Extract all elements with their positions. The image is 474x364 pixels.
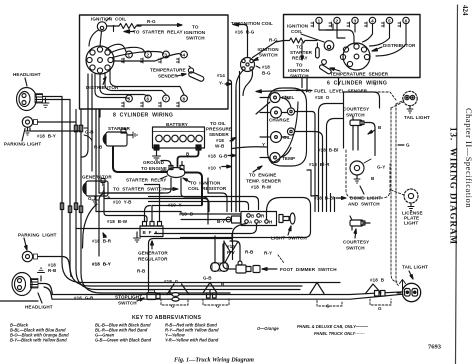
svg-text:PANEL & DELUXE CAB, ONLY———: PANEL & DELUXE CAB, ONLY——— [297, 324, 369, 329]
svg-text:TO IGNITION: TO IGNITION [190, 181, 221, 186]
svg-text:G: G [378, 306, 382, 311]
svg-text:4: 4 [371, 18, 374, 23]
svg-text:6: 6 [147, 97, 150, 102]
svg-text:BATTERY: BATTERY [166, 122, 188, 127]
wire relay to switch runs [83, 109, 210, 256]
battery [153, 122, 205, 150]
svg-text:TO ENGINE: TO ENGINE [141, 166, 167, 171]
distributor-plug wires (6 cyl) [319, 24, 406, 56]
svg-text:TO STARTER RELAY: TO STARTER RELAY [133, 30, 183, 35]
svg-text:G: G [88, 196, 92, 201]
svg-text:HEADLIGHT: HEADLIGHT [13, 72, 41, 77]
svg-text:#18 G-B: #18 G-B [208, 154, 228, 159]
svg-text:A: A [249, 220, 253, 225]
svg-text:STARTER: STARTER [290, 50, 313, 55]
svg-text:O—Orange: O—Orange [257, 326, 279, 331]
svg-text:#18 O: #18 O [315, 95, 330, 100]
wire left vertical bundle [62, 97, 101, 294]
to starter switch [113, 187, 178, 192]
left connectors G-B / R-B [74, 125, 103, 149]
svg-text:CHARGE: CHARGE [269, 118, 290, 123]
svg-text:R-Y: R-Y [264, 251, 272, 256]
svg-text:R-B: R-B [245, 250, 254, 255]
svg-text:#18 B-Bl: #18 B-Bl [314, 196, 335, 201]
svg-text:13. WIRING DIAGRAM: 13. WIRING DIAGRAM [449, 127, 459, 245]
svg-text:TO STARTER SWITCH: TO STARTER SWITCH [113, 187, 166, 192]
wire headlight1 feeds [30, 97, 81, 132]
to ignition coil resistor [183, 178, 227, 191]
svg-text:Y-: Y- [219, 81, 224, 86]
svg-text:TO FUEL LEVEL SENDER: TO FUEL LEVEL SENDER [305, 89, 368, 94]
svg-text:COIL: COIL [291, 29, 302, 34]
svg-text:#18: #18 [262, 65, 270, 70]
6 CYLINDER WIRING box [284, 15, 421, 87]
svg-text:8 CYLINDER WIRING: 8 CYLINDER WIRING [113, 113, 173, 119]
svg-text:LIGHT: LIGHT [404, 221, 418, 226]
wire lower-left lamps [44, 257, 216, 299]
svg-text:IGNITION: IGNITION [288, 68, 310, 73]
wire to ignition switch with arrow [137, 24, 206, 41]
svg-text:7: 7 [165, 97, 168, 102]
svg-text:PANEL TRUCK ONLY·······: PANEL TRUCK ONLY······· [314, 331, 365, 336]
spark plugs 1-6 (6 cyl) [311, 17, 409, 27]
foot dimmer switch [236, 261, 337, 273]
light switch [241, 212, 307, 241]
stoplight switch [115, 290, 160, 306]
dashed G brackets (panel truck only) [161, 255, 391, 306]
svg-text:RELAY: RELAY [292, 56, 308, 61]
wire courtesy/dome feeds [352, 123, 375, 231]
svg-text:STARTER: STARTER [108, 126, 131, 131]
wire dimmer connections [223, 234, 240, 270]
svg-text:6: 6 [405, 18, 408, 23]
wire mid verticals to 6cyl [296, 78, 343, 212]
wire ignition feed across top [234, 23, 239, 26]
to ignition coil label top [231, 21, 278, 43]
svg-text:DISTRIBUTOR: DISTRIBUTOR [383, 43, 416, 48]
svg-text:TAIL LIGHT: TAIL LIGHT [404, 115, 430, 120]
svg-text:TO ENGINE: TO ENGINE [249, 173, 276, 178]
wire battery to right trunk [208, 80, 236, 212]
starter relay [126, 166, 185, 183]
svg-text:TEMP: TEMP [282, 156, 295, 161]
svg-text:#10 Y: #10 Y [208, 166, 222, 171]
svg-text:TO: TO [296, 63, 303, 68]
junction block right [226, 216, 240, 223]
svg-text:G: G [171, 304, 175, 309]
svg-text:#18 B-R: #18 B-R [92, 239, 112, 244]
spark plugs 1-4 (8 cyl) [106, 44, 187, 63]
wire label #14 Y outside box [217, 73, 225, 86]
svg-text:G: G [326, 304, 330, 309]
svg-text:SWITCH: SWITCH [186, 36, 205, 41]
svg-text:SENDER: SENDER [158, 74, 179, 79]
svg-text:G-B: G-B [203, 276, 212, 281]
svg-text:2: 2 [336, 18, 339, 23]
parking light upper [4, 117, 56, 147]
svg-text:W-B: W-B [215, 144, 225, 149]
wire labels [107, 195, 225, 224]
wire long diagonal to tail light [0, 284, 403, 302]
to engine temp sender [246, 166, 282, 190]
svg-text:KEY TO ABBREVIATIONS: KEY TO ABBREVIATIONS [132, 315, 201, 321]
svg-text:Chapter II—Specification: Chapter II—Specification [464, 108, 474, 208]
svg-text:#18 B-Bl: #18 B-Bl [318, 148, 339, 153]
svg-text:TO: TO [192, 25, 199, 30]
svg-text:#18 B-W: #18 B-W [107, 219, 128, 224]
svg-text:HEADLIGHT: HEADLIGHT [25, 305, 53, 310]
right mid labels [262, 142, 346, 201]
svg-text:R-B: R-B [48, 268, 57, 273]
dome light and switch [346, 150, 390, 207]
svg-text:PRESSURE: PRESSURE [206, 127, 232, 132]
courtesy switch lower [343, 216, 369, 251]
svg-text:GENERATOR: GENERATOR [138, 251, 168, 256]
license plate light [402, 189, 423, 226]
headlight lower [12, 268, 53, 309]
svg-text:8: 8 [183, 97, 186, 102]
spark plugs 5-8 (8 cyl) [95, 70, 187, 108]
ignition coil (6 cyl) [287, 24, 334, 51]
distributor (8 cyl) [86, 30, 119, 90]
ignition coil (8 cyl) [91, 17, 126, 32]
svg-text:#18: #18 [216, 138, 224, 143]
generator regulator [134, 222, 169, 262]
svg-text:IGNITION: IGNITION [287, 24, 309, 29]
connector rects on left bundle [60, 203, 82, 213]
wire labels lower-left [48, 262, 111, 301]
key to abbreviations [10, 315, 369, 343]
svg-text:3: 3 [354, 18, 357, 23]
svg-text:LIGHT: LIGHT [27, 142, 41, 147]
svg-text:COURTESY: COURTESY [343, 107, 369, 112]
svg-text:#18 B-Y: #18 B-Y [37, 134, 56, 139]
svg-text:COURTESY: COURTESY [343, 240, 369, 245]
svg-text:#14: #14 [217, 73, 225, 78]
right wire letters [368, 125, 410, 148]
svg-text:FOOT DIMMER SWITCH: FOOT DIMMER SWITCH [280, 267, 337, 272]
wire to starter relay with arrow [124, 30, 183, 35]
svg-text:GENERATOR: GENERATOR [82, 175, 112, 180]
svg-text:G: G [216, 304, 220, 309]
starter [103, 126, 137, 146]
svg-text:PARKING LIGHT: PARKING LIGHT [18, 233, 57, 238]
svg-text:R: R [261, 214, 265, 219]
svg-text:5: 5 [128, 97, 131, 102]
svg-text:TAIL LIGHT: TAIL LIGHT [402, 265, 428, 270]
svg-text:B: B [186, 152, 190, 157]
ground to engine [141, 150, 167, 171]
svg-text:SWITCH: SWITCH [346, 113, 365, 118]
distributor (6 cyl) [340, 43, 416, 70]
to ignition switch (6 cyl) [288, 43, 310, 79]
temperature sender (6 cyl) [319, 60, 389, 77]
svg-text:#16 R-G: #16 R-G [235, 30, 255, 35]
instrument cluster [260, 88, 307, 166]
svg-text:B: B [251, 214, 255, 219]
page rule [456, 5, 458, 364]
svg-text:SENDER: SENDER [209, 132, 229, 137]
8 CYLINDER WIRING box [80, 15, 229, 119]
wire stoplight taps [167, 283, 324, 295]
svg-text:6 CYLINDER WIRING: 6 CYLINDER WIRING [327, 81, 387, 87]
svg-text:2: 2 [147, 53, 150, 58]
svg-text:PARKING: PARKING [4, 142, 26, 147]
svg-text:TEMPERATURE SENDER: TEMPERATURE SENDER [330, 72, 389, 77]
temperature sender (8 cyl) [150, 66, 205, 82]
svg-text:B-Y—Black with Yellow Band: B-Y—Black with Yellow Band [10, 338, 67, 343]
svg-text:#10 Y-B: #10 Y-B [113, 200, 132, 205]
resistor R-G (8 cyl) [107, 19, 156, 32]
parking light lower [18, 233, 57, 262]
svg-text:TO OIL: TO OIL [210, 121, 226, 126]
svg-text:7693: 7693 [428, 344, 442, 351]
svg-text:SWITCH: SWITCH [259, 53, 278, 58]
svg-text:SWITCH: SWITCH [118, 301, 137, 306]
generator [82, 175, 112, 205]
svg-text:FUEL: FUEL [282, 95, 294, 100]
svg-text:#18 B-Y: #18 B-Y [92, 262, 111, 267]
ignition switch [241, 47, 280, 76]
courtesy switch upper [343, 107, 369, 126]
svg-text:G-Y: G-Y [377, 165, 385, 170]
wire 8cyl box downfeeds [82, 74, 100, 212]
svg-text:1: 1 [318, 18, 321, 23]
tail light upper [403, 91, 430, 120]
svg-text:TEMPERATURE: TEMPERATURE [150, 68, 186, 73]
svg-text:P: P [259, 220, 262, 225]
svg-text:R-B: R-B [137, 269, 146, 274]
battery cable B [178, 150, 199, 167]
svg-text:Y-R—Yellow with Red Band: Y-R—Yellow with Red Band [165, 338, 219, 343]
wire cluster connections [232, 25, 315, 212]
svg-text:Fig. 1—Truck Wiring Diagram: Fig. 1—Truck Wiring Diagram [174, 357, 254, 364]
svg-text:B: B [378, 125, 382, 130]
svg-text:B F A: B F A [143, 230, 159, 235]
svg-text:#18 G: #18 G [164, 279, 179, 284]
wire bottom horizontal trunk [82, 283, 340, 294]
svg-text:424: 424 [461, 5, 469, 16]
svg-text:H: H [269, 220, 273, 225]
wire light switch loops [76, 170, 318, 291]
svg-text:B-G: B-G [262, 71, 271, 76]
svg-text:DOME LIGHT: DOME LIGHT [350, 196, 381, 201]
svg-text:#18: #18 [48, 263, 56, 268]
wire fuel sender line [339, 78, 380, 149]
svg-text:TEMP. SENDER: TEMP. SENDER [246, 179, 282, 184]
svg-text:G-B: G-B [85, 130, 94, 135]
svg-text:SWITCH: SWITCH [346, 246, 365, 251]
labels right of battery [208, 154, 228, 171]
SIDEBAR [174, 5, 474, 364]
svg-text:IGNITION: IGNITION [184, 30, 206, 35]
svg-text:5: 5 [388, 18, 391, 23]
dashed feeds tail/license (panel truck only) [370, 82, 404, 286]
svg-text:R-G: R-G [147, 19, 156, 24]
svg-text:4: 4 [183, 53, 186, 58]
to oil pressure sender label [206, 121, 232, 149]
headlight upper [13, 72, 49, 111]
wire starter cable [113, 147, 202, 205]
to fuel level sender [256, 89, 368, 101]
svg-text:G-B—Green with Black Band: G-B—Green with Black Band [95, 338, 152, 343]
svg-text:G: G [406, 143, 410, 148]
resistor (6 cyl) [284, 38, 320, 58]
wire labels left-middle [92, 233, 272, 287]
svg-text:#18 B: #18 B [370, 278, 385, 283]
horn component [211, 236, 229, 272]
svg-text:B: B [371, 176, 375, 181]
to starter relay (6 cyl) [290, 45, 313, 61]
tail light lower [370, 265, 428, 302]
svg-text:AND SWITCH: AND SWITCH [348, 202, 380, 207]
svg-text:REGULATOR: REGULATOR [138, 257, 168, 262]
svg-text:#18 R-W: #18 R-W [251, 185, 272, 190]
